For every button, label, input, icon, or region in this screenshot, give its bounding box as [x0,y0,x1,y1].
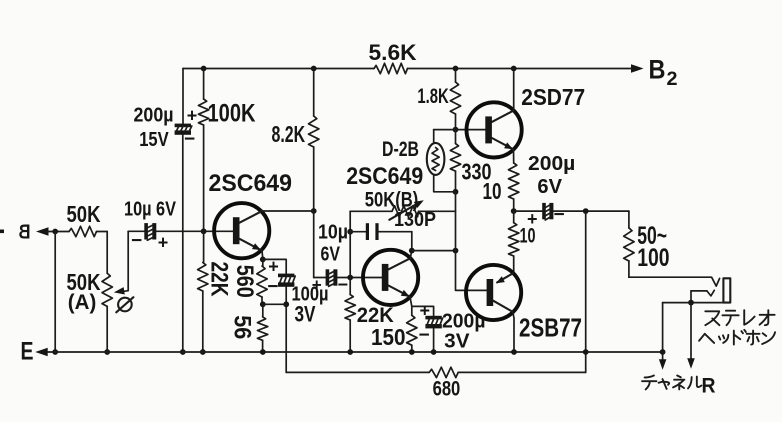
resistor 10 (upper) [513,149,515,163]
svg-text:+: + [527,209,538,229]
resistor 680 (feedback) [286,371,429,373]
svg-text:−: − [554,205,565,226]
capacitor 200u 3V (Q2 emitter bypass) [412,306,434,315]
node rail-8.2K junction [311,66,317,72]
svg-text:+: + [158,233,169,253]
svg-text:10µ: 10µ [318,221,348,243]
svg-text:2: 2 [667,69,678,90]
node Q1 collector junction [311,208,317,214]
wire Q2 base to feedback network [349,211,351,277]
wire B2 supply rail [183,68,374,70]
capacitor 200u 6V (output coupling) [514,210,543,212]
pot adjust screw [118,298,132,312]
svg-text:3V: 3V [444,329,470,352]
pot wiper arrow [120,231,128,291]
svg-text:50K(B): 50K(B) [365,188,419,211]
wire input B row [48,231,70,233]
wire Q1 collector [261,210,313,212]
svg-text:2SB77: 2SB77 [519,314,582,342]
wire 8.2K bottom to coupling cap [313,211,315,278]
svg-text:(A): (A) [68,291,97,314]
node output junction [583,208,589,214]
svg-text:−: − [184,129,195,150]
wire rail to B2 arrow [408,68,633,70]
variable resistor 50K(B) [350,210,392,212]
svg-text:100K: 100K [208,99,256,127]
wire jack ground to rail [662,303,664,352]
svg-text:−: − [419,325,430,346]
transistor Q2 2SC649 [363,250,418,305]
node channel R arrows [662,352,664,360]
node 130P left junction [347,229,353,235]
svg-text:10µ 6V: 10µ 6V [124,198,176,221]
svg-text:1.8K: 1.8K [417,84,449,108]
node output mid junction [511,208,517,214]
wire jack tip contact [629,277,720,286]
resistor 10 (lower) [513,211,515,223]
wire output down to ground/feedback [585,211,587,372]
svg-text:680: 680 [433,377,461,401]
node input B terminal [36,227,49,236]
wire feedback tap down to 680 line [285,304,287,372]
wire left supply drop [182,69,184,124]
svg-text:50K: 50K [67,201,101,227]
node Q3 base junction [453,127,459,133]
node rail-Q3 collector junction [511,66,517,72]
node Q2 collector junction [409,248,415,254]
resistor 22K (Q1 base) [203,231,205,262]
label channel R (katakana) [642,376,656,390]
thermistor D-2B [433,130,435,143]
svg-text:D-2B: D-2B [382,137,419,161]
resistor 50~100 [628,211,630,228]
node Q2 base junction [347,275,353,281]
wire Q3 collector [513,69,515,111]
resistor 22K (Q2 base) [349,278,351,295]
svg-text:+: + [268,256,279,276]
transistor Q1 2SC649 [214,203,269,258]
wire input shunt left [54,232,56,353]
capacitor 130P [350,231,366,233]
svg-text:200µ: 200µ [134,103,174,126]
wire 130P to Q2 collector node [411,232,413,251]
svg-text:22K: 22K [206,262,233,298]
svg-text:−: − [338,275,349,295]
svg-text:150: 150 [371,324,406,350]
wire jack ring contact [707,290,714,296]
wire Q2 emitter [410,297,412,307]
wire Q4 collector to ground [513,312,514,352]
node D-2B bottom junction [453,189,459,195]
label stereo headphone (katakana) [705,311,719,325]
resistor 560 [262,259,264,266]
svg-text:+: + [187,106,198,126]
svg-text:−: − [267,277,278,298]
wire Q2 collector [410,251,412,259]
svg-text:560: 560 [231,265,258,298]
wire edge artifact [0,230,4,234]
node rail-1.8K junction [453,66,459,72]
svg-text:130P: 130P [394,209,436,231]
svg-text:15V: 15V [139,129,169,151]
headphone jack plug [723,278,730,302]
wire cap to ground rail [182,135,184,352]
transistor Q3 2SD77 [467,102,522,157]
svg-text:2SD77: 2SD77 [521,84,585,110]
capacitor 200u 15V [175,124,192,135]
node rail arrow B2 [631,64,644,73]
svg-text:10: 10 [483,178,502,204]
resistor 56 [262,304,264,317]
wire Q1 emitter [261,250,264,259]
svg-text:+: + [312,275,322,294]
capacitor 100u 3V (Q1 emitter bypass) [263,259,286,273]
potentiometer 50K(A) [106,232,108,274]
resistor 8.2K [313,69,315,117]
svg-text:B: B [19,222,31,244]
node rail-100K junction [201,66,207,72]
svg-text:E: E [21,338,34,366]
wire collector node to driver chain [412,250,456,252]
svg-text:56: 56 [229,315,256,339]
capacitor 10u 6V (input coupling) [128,230,144,232]
capacitor 10u 6V (interstage coupling) [314,277,326,279]
svg-text:+: + [420,301,431,321]
wire jack sleeve/frame [663,302,724,304]
svg-text:2SC649: 2SC649 [209,170,293,197]
wire 330 to 50KB and collector node [456,192,487,291]
svg-text:3V: 3V [295,302,316,327]
svg-text:6V: 6V [321,243,341,265]
resistor 5.6K [374,63,408,73]
svg-text:5.6K: 5.6K [369,40,417,65]
resistor 50K (input series) [69,226,97,236]
svg-text:100: 100 [637,244,669,272]
resistor 330 [455,130,457,144]
node E terminal [35,348,48,356]
svg-text:8.2K: 8.2K [272,121,306,147]
node Q1 base junction [201,228,207,234]
resistor 100K [203,69,205,100]
resistor 1.8K [455,69,457,83]
resistor 150 [411,306,413,315]
svg-text:6V: 6V [537,175,562,198]
svg-text:−: − [131,231,142,252]
wire ground rail [47,351,663,353]
svg-text:R: R [702,375,716,398]
svg-text:200µ: 200µ [528,152,575,175]
node 560/56 junction [260,301,266,307]
node Q1 emitter [260,257,266,263]
transistor Q4 2SB77 [466,265,521,320]
svg-text:B: B [649,55,666,85]
svg-text:2SC649: 2SC649 [346,163,423,190]
wire Q3 base line [434,129,486,131]
